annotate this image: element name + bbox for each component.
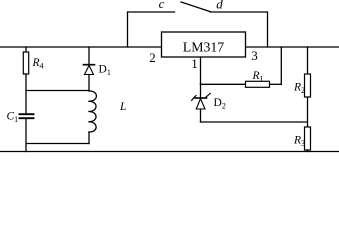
svg-text:3: 3 (251, 48, 258, 63)
wire: bottom connector C1 to L (26, 143, 89, 145)
svg-text:L: L (119, 101, 126, 113)
wire: R4 bottom lead (25, 74, 27, 91)
wire: C1 bottom lead to bottom rail (25, 119, 27, 152)
resistor R3 (305, 127, 311, 150)
wire: connector D2 to R2/R3 junction (201, 121, 308, 123)
svg-text:c: c (159, 0, 165, 11)
resistor R1 (246, 81, 270, 87)
wire: pin 1 horizontal to R1 (201, 83, 246, 85)
svg-text:LM317: LM317 (183, 40, 224, 55)
wire: top rail left (0, 46, 162, 48)
wire: R1 riser to output rail (280, 47, 282, 84)
svg-text:2: 2 (149, 50, 156, 65)
wire: top rail right (pin 3 to right edge) (246, 46, 339, 48)
wire: pin 1 lead down (200, 57, 202, 84)
wire: D1 top lead (88, 47, 90, 65)
wire: R3 bottom lead (307, 150, 309, 152)
inductor L (88, 91, 96, 132)
resistor R4 (23, 52, 28, 74)
wire: R2 bottom to R3 top (307, 97, 309, 127)
resistor R2 (305, 74, 311, 97)
zener diode D2 (192, 93, 211, 109)
wire: D2 top lead (200, 84, 202, 98)
svg-text:1: 1 (191, 56, 198, 71)
wire: R2 top lead (307, 47, 309, 74)
wire: switch left riser (128, 12, 175, 47)
wire: switch right segment and riser (210, 12, 268, 47)
wire: R1 right lead (270, 83, 282, 85)
switch blade c-d (181, 2, 210, 12)
wire: C1 top lead (25, 91, 27, 114)
wire: bottom rail (0, 151, 339, 153)
wire: D1 bottom lead to node (88, 75, 90, 92)
wire: R4 top lead (25, 47, 27, 52)
diode D1 (84, 65, 95, 75)
wire: D2 bottom lead (200, 109, 202, 122)
wire: L bottom lead (88, 132, 90, 144)
svg-text:d: d (216, 0, 223, 12)
capacitor C1 (20, 114, 34, 118)
op-amp U1 LM317 box (162, 32, 246, 57)
wire: node line R4/C1 to D1/L (26, 90, 89, 92)
